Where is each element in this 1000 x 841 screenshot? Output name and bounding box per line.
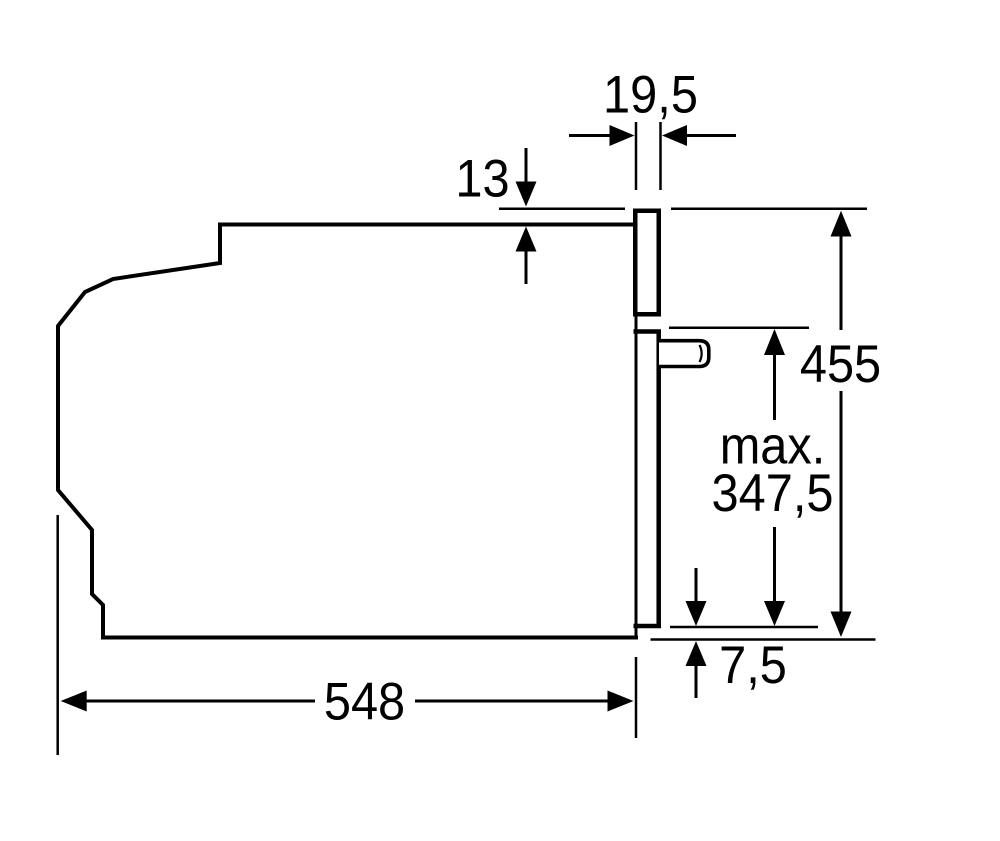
max 347,5 reference line xyxy=(669,327,809,330)
dim 548: right arrow xyxy=(415,700,609,703)
door bottom edge xyxy=(634,624,662,629)
dim max347,5: top arrow xyxy=(764,329,785,355)
handle xyxy=(659,341,709,367)
dim 13: up arrow xyxy=(525,251,528,284)
front fascia flange xyxy=(635,211,659,315)
door top step xyxy=(634,329,662,334)
dim 7,5: lower line (oven bottom level) xyxy=(651,638,876,641)
door back line xyxy=(635,316,638,639)
svg-text:19,5: 19,5 xyxy=(603,65,698,124)
dim 7,5: upper line (door bottom level) xyxy=(670,626,818,629)
dim 7,5: down arrow xyxy=(695,568,698,603)
svg-text:13: 13 xyxy=(455,149,509,208)
svg-text:455: 455 xyxy=(800,334,881,393)
dim 7,5: up arrow xyxy=(695,664,698,698)
handle inner highlight xyxy=(700,345,702,362)
dim 19,5: left arrow xyxy=(569,134,612,137)
dim 548: left extension line xyxy=(56,515,59,755)
dim 19,5: extension lines xyxy=(635,122,638,190)
dim 455: top arrow xyxy=(831,211,852,237)
svg-text:347,5: 347,5 xyxy=(712,463,834,522)
dim max347,5: lower stem + bottom arrow xyxy=(773,527,776,602)
top reference line (niche top) xyxy=(499,207,625,210)
dim 13: down arrow xyxy=(525,148,528,183)
dim 548: left arrow xyxy=(61,691,87,712)
svg-text:548: 548 xyxy=(324,672,405,731)
dim 455: lower stem + bottom arrow xyxy=(840,391,843,612)
door front face xyxy=(656,331,661,628)
dim 19,5: right arrow xyxy=(685,134,736,137)
dim 548: right extension line xyxy=(635,657,638,738)
oven body outline xyxy=(58,225,638,638)
svg-text:7,5: 7,5 xyxy=(719,635,787,694)
